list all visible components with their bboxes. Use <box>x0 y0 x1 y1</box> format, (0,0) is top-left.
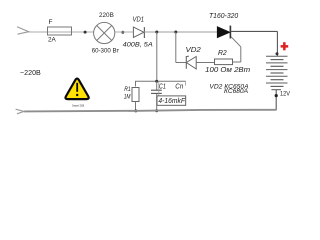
thyristor gate lead <box>231 37 241 47</box>
svg-text:1М: 1М <box>124 94 131 101</box>
svg-text:100 Ом 2Вт: 100 Ом 2Вт <box>205 67 250 74</box>
svg-text:F: F <box>49 19 53 26</box>
input terminal top chevron <box>17 27 29 34</box>
thyristor VS1 T160-320 <box>217 27 230 38</box>
svg-text:Cn: Cn <box>175 84 183 91</box>
svg-text:R1: R1 <box>124 86 131 93</box>
wire bottom main <box>24 110 276 112</box>
svg-text:C1: C1 <box>159 84 166 91</box>
svg-text:~220В: ~220В <box>20 68 41 77</box>
svg-text:400В, 5А: 400В, 5А <box>123 41 153 48</box>
junction dot <box>121 31 124 34</box>
junction node dot <box>174 31 177 34</box>
junction dot C1 top <box>155 80 158 83</box>
battery GB1 12V cells <box>266 56 288 86</box>
wire branch to VD2 <box>176 62 187 64</box>
wire battery to bottom <box>275 90 277 111</box>
annotation box 4-16mkF <box>157 96 186 105</box>
capacitor C1 leads <box>156 81 158 90</box>
junction dot <box>84 31 87 34</box>
svg-text:60-300 Вт: 60-300 Вт <box>92 48 120 55</box>
wire thyristor to corner <box>230 30 277 32</box>
svg-text:2A: 2A <box>48 37 56 44</box>
junction dot C1 bottom <box>155 109 158 112</box>
wire R1 top <box>135 81 137 86</box>
wire R1 bottom <box>135 102 137 112</box>
wire <box>144 31 217 33</box>
plus sign red <box>281 42 289 50</box>
input terminal bottom chevron <box>16 109 24 114</box>
resistor R1 <box>132 88 139 102</box>
junction dot R1 bottom <box>134 109 137 112</box>
battery minus terminal tick <box>271 89 281 91</box>
fuse F1 <box>48 27 72 35</box>
zener diode VD2 <box>186 57 196 70</box>
exclamation mark <box>76 83 78 92</box>
junction dot battery top <box>276 52 279 55</box>
svg-text:12V: 12V <box>280 92 290 98</box>
svg-text:КС680А: КС680А <box>224 88 248 95</box>
svg-text:4-16mkF: 4-16mkF <box>158 98 185 105</box>
node branch vertical 2 <box>175 32 177 63</box>
wire R2 to gate <box>233 61 241 63</box>
diode VD1 <box>133 27 144 37</box>
capacitor C1 plates <box>151 89 162 91</box>
junction node dot <box>155 31 158 34</box>
wire top main <box>29 31 94 33</box>
resistor R2 <box>215 59 233 65</box>
svg-text:220В: 220В <box>99 12 114 19</box>
svg-text:Опасно! 220В: Опасно! 220В <box>72 104 84 108</box>
svg-text:VD1: VD1 <box>133 17 145 24</box>
node branch vertical 1 <box>156 32 158 81</box>
annotation cell C1..Cn edges <box>159 81 186 96</box>
svg-text:T160-320: T160-320 <box>209 11 239 20</box>
wire VD2 to R2 <box>196 62 214 64</box>
wire <box>115 31 134 33</box>
svg-text:VD2: VD2 <box>186 47 201 54</box>
lamp HL1 <box>94 22 115 43</box>
wire corner down to battery <box>276 31 278 56</box>
wire R1/C1 node horizontal <box>135 80 186 82</box>
warning triangle <box>66 79 89 100</box>
junction dot <box>275 94 278 97</box>
svg-text:R2: R2 <box>218 48 227 57</box>
